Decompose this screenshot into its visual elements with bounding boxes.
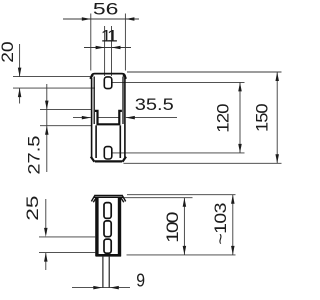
svg-text:150: 150 <box>252 103 271 132</box>
svg-text:20: 20 <box>0 41 17 62</box>
svg-text:25: 25 <box>23 196 42 221</box>
svg-text:56: 56 <box>93 0 119 19</box>
svg-text:9: 9 <box>136 269 145 291</box>
svg-text:120: 120 <box>213 103 232 132</box>
svg-text:35.5: 35.5 <box>135 94 174 113</box>
svg-text:27.5: 27.5 <box>24 136 43 175</box>
svg-text:100: 100 <box>164 212 183 243</box>
svg-text:~103: ~103 <box>210 203 230 245</box>
